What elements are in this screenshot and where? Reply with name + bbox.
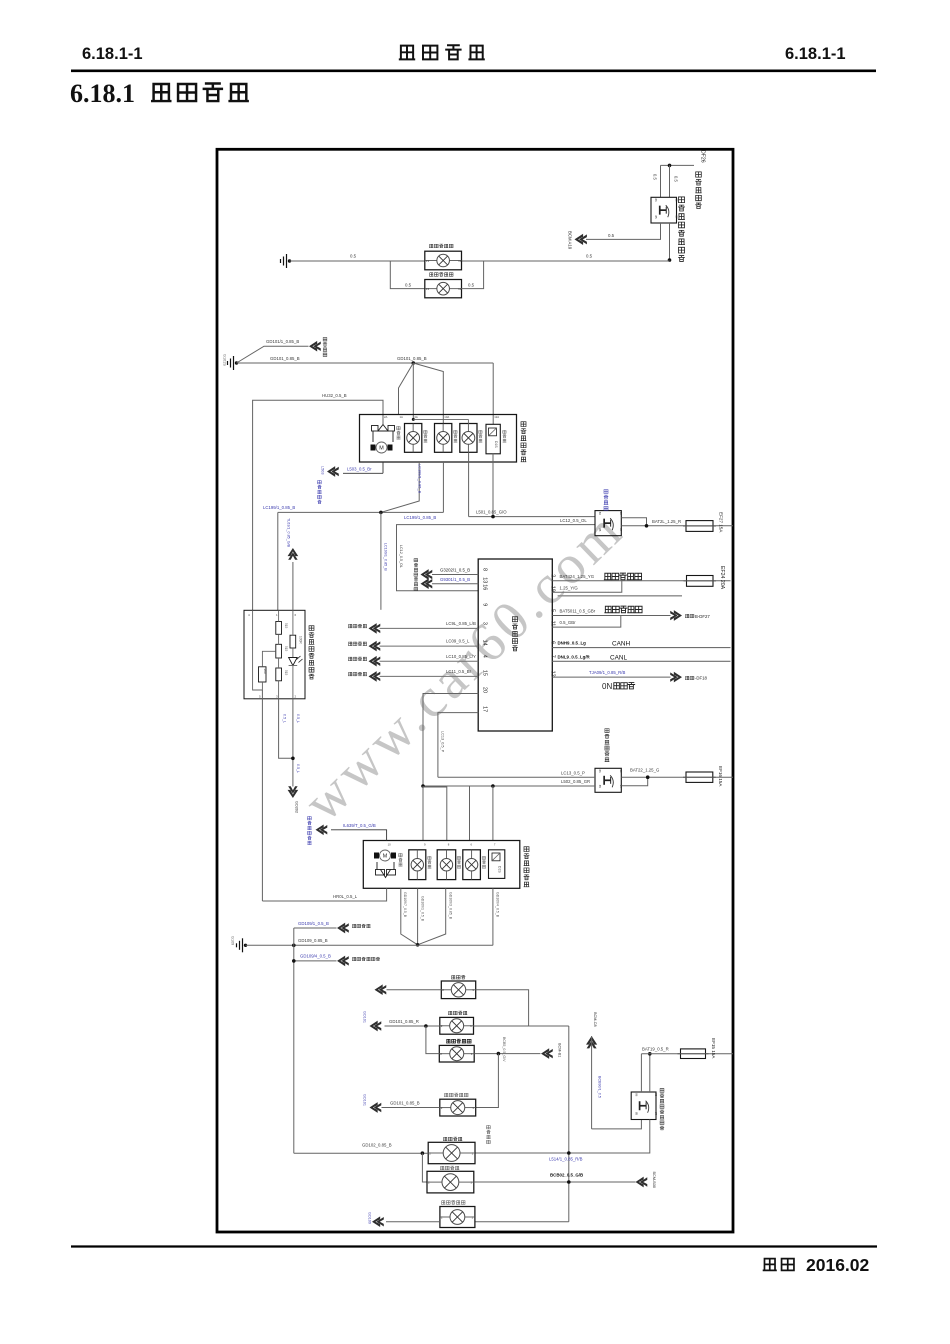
wire LC199 bus to leveling switch [442,462,444,512]
svg-text:L503: L503 [321,466,325,474]
svg-text:11: 11 [550,621,556,627]
svg-text:10: 10 [388,842,392,846]
svg-text:6: 6 [550,641,556,644]
svg-text:9: 9 [482,603,488,606]
connector arrow to BCM A10 [575,234,587,245]
node DRL feed [668,258,672,262]
wire branch x446 [423,787,447,841]
connector arrow [369,623,381,634]
lamp right headlamp L3 [463,850,481,880]
wire small box down out of box [261,690,263,901]
svg-text:LC13_0.5_P: LC13_0.5_P [441,731,445,753]
label harness name vertical CJK [323,338,327,341]
svg-text:GD109/4_0.5_B: GD109/4_0.5_B [496,892,500,918]
svg-text:BCB5_0.5_G/V: BCB5_0.5_G/V [502,1037,506,1062]
svg-text:L502_0.85_GR: L502_0.85_GR [561,779,590,784]
svg-text:LC199/1_0.85_B: LC199/1_0.85_B [384,543,388,571]
wire to front harness connector [237,346,309,363]
label lamp B CJK [448,1011,452,1014]
svg-text:GD101_0.85_B: GD101_0.85_B [270,356,300,361]
wire relay pin 86 drop [660,165,662,197]
lamp DRL right 日间行车灯 [425,280,462,298]
svg-text:G9301/1_0.5_B: G9301/1_0.5_B [440,577,470,582]
wire fan to x398 [399,363,414,415]
wire branch x493 node [491,784,495,788]
wire L503 leveling signal blue [343,472,383,474]
separator gray line [558,595,682,597]
connector arrow front harness [309,341,321,352]
wire fan to x443 [413,363,443,424]
header rule [71,70,876,73]
svg-text:13: 13 [426,259,430,263]
wire lamp F left [422,1153,427,1182]
wire DRL main right [462,260,670,262]
node drop to lamp F [421,1151,425,1155]
relay K4 flasher relay [631,1092,656,1120]
svg-text:4: 4 [482,655,488,658]
wire lamp A right [476,990,529,1026]
svg-text:BAT2L_1.25_R: BAT2L_1.25_R [652,519,681,524]
label lamp A CJK [451,975,455,978]
svg-text:EF27 15A: EF27 15A [719,512,724,533]
fuse EF15 [681,1049,706,1059]
lamp E [428,1142,475,1163]
connector arrow up [288,548,299,560]
svg-text:BAT19_0.5_R: BAT19_0.5_R [642,1047,669,1052]
wire HR0L leveling to right motor [262,888,386,901]
label lamp G CJK gray [441,1201,445,1204]
wire pin20 down [423,694,478,787]
connector arrow up BCM C8 [586,1036,597,1048]
lamp headlamp L3 [460,424,477,453]
svg-text:BAT22_1.25_G: BAT22_1.25_G [630,767,660,772]
svg-text:GD202: GD202 [295,801,299,813]
wire pin17 down [438,713,478,778]
svg-text:GD109: GD109 [368,1212,372,1224]
svg-text:M: M [379,446,384,452]
svg-text:B-DF27: B-DF27 [695,614,710,619]
svg-text:G101S: G101S [223,354,227,366]
wire R2 to small box [262,651,275,667]
svg-text:1A: 1A [400,415,404,419]
connector arrow DF18 [670,672,682,683]
lamp C front turn [439,1045,474,1062]
label source CJK [348,642,352,645]
connector arrow [369,671,381,682]
label DF18 dest [685,676,689,679]
svg-text:515: 515 [284,646,288,652]
node riser join [567,1151,571,1155]
svg-text:IL639/T_0.5_G/B: IL639/T_0.5_G/B [343,823,376,828]
label assembly name vertical CJK [521,422,526,427]
lamp F [427,1171,474,1193]
fuse EF24 [687,576,714,587]
svg-text:0.5_GBr: 0.5_GBr [560,620,577,625]
svg-text:3A: 3A [414,415,418,419]
label relay name vertical blue CJK [604,490,608,494]
connector arrow BCM B30 [636,1177,648,1188]
footer model name (CJK) 逸动 [764,1259,776,1271]
wire LC13 pin17 to relay [438,776,595,778]
svg-text:30: 30 [674,199,678,203]
wire below leveling box pair [279,699,293,759]
svg-text:0.5: 0.5 [674,176,679,182]
svg-text:13: 13 [482,577,488,583]
lamp headlamp L2 [435,424,452,453]
svg-text:86: 86 [598,770,602,774]
svg-text:0N: 0N [602,682,612,691]
svg-text:0.5: 0.5 [350,254,357,259]
svg-text:LC199/1_0.85_B: LC199/1_0.85_B [263,505,295,510]
wire relay out jog [621,518,646,526]
svg-text:86: 86 [654,199,658,203]
label relay name vertical CJK [605,729,609,733]
wire D1S bottom [492,454,494,517]
svg-text:13: 13 [426,287,430,291]
wire lamp C right to BCM [474,1053,540,1055]
svg-text:L514/1_0.85_R/B: L514/1_0.85_R/B [549,1156,583,1161]
wire lamp E left from riser [294,1152,428,1154]
wire lamp A left arrow [387,989,442,991]
node BCB02 [567,1180,571,1184]
svg-text:BCB02_0.5_G/B: BCB02_0.5_G/B [550,1173,583,1178]
label module name vertical CJK [512,617,517,622]
svg-text:LC13_0.5_P: LC13_0.5_P [561,770,585,775]
svg-text:GD101_0.85_B: GD101_0.85_B [390,1100,420,1105]
relay K3 headlamp relay [595,768,621,792]
wire lamp3 bottom to L501 [468,452,470,516]
label source CJK [348,657,352,660]
wire relay out down [475,1120,650,1154]
svg-text:BCM-C8: BCM-C8 [593,1012,597,1027]
label external ground vertical gray [487,1126,491,1129]
svg-text:86: 86 [598,512,602,516]
wire lamp G left [386,1221,440,1223]
wire lamp B right bus [474,1025,569,1027]
svg-text:0.5: 0.5 [468,282,475,287]
fuse EF16 [686,772,713,782]
svg-text:7: 7 [550,655,556,658]
node LC199 junction [379,511,383,515]
lamp right headlamp L1 [409,850,426,880]
lamp headlamp L1 [405,424,422,453]
svg-text:BAT424_1.25_YG: BAT424_1.25_YG [560,574,595,579]
svg-text:TL63/1_0.85_G/B: TL63/1_0.85_G/B [287,518,291,548]
label assembly name vertical CJK [524,847,529,852]
svg-text:GD101_0.85_B: GD101_0.85_B [397,356,427,361]
node BAT2L [645,524,649,528]
wire pin6 CANH [552,647,730,649]
label L3 vertical [479,430,482,433]
svg-text:12: 12 [458,287,462,291]
leveling motor symbol right (mirrored) [380,850,391,861]
wire lamp B left [385,1025,440,1027]
svg-text:30: 30 [619,512,623,516]
wire BAT19 to fuse EF15 [641,1053,733,1055]
wire DRL right return [462,261,484,289]
svg-text:TJA09/1_0.85_R/B: TJA09/1_0.85_R/B [589,670,625,675]
wire turn drop to side lamp [476,1054,499,1108]
label relay name vertical CJK [660,1089,664,1093]
wire pin2 BAT424 to fuse EF24 [552,580,730,582]
label dest CJK [352,957,356,960]
svg-text:6.18.1-1: 6.18.1-1 [82,45,143,63]
svg-text:BCM A10: BCM A10 [568,231,573,250]
label DRL left lamp name [429,244,433,247]
wire pin [380,660,479,662]
wire left riser [293,928,295,1153]
svg-text:6.18.1: 6.18.1 [70,79,135,108]
label lamp F CJK gray [440,1166,444,1169]
wire resistor chain [278,610,280,621]
svg-text:85: 85 [634,1112,638,1116]
svg-text:12: 12 [458,259,462,263]
node turn feed [497,1052,501,1056]
wire HU32 leveling feed [253,400,383,610]
svg-text:EF24 20A: EF24 20A [719,566,725,590]
svg-text:12A: 12A [494,415,499,419]
svg-text:LC12_0.5_OL: LC12_0.5_OL [560,518,587,523]
lamp DRL left 日间行车灯 [425,251,462,270]
resistor R3 [276,668,282,681]
wire HU32 inside box [253,610,263,690]
svg-text:85: 85 [598,785,602,789]
wire bus drops into right headlamp [421,784,425,788]
label vertical [457,856,460,859]
label source CJK [348,624,352,627]
svg-text:2016.02: 2016.02 [806,1255,870,1275]
svg-text:LC10_0.85_L/Y: LC10_0.85_L/Y [446,654,476,659]
svg-text:GD109/1_0.5_B: GD109/1_0.5_B [298,921,329,926]
label CJK 后雾灯电源 [605,606,612,612]
svg-text:DNH9_0.5_Lg: DNH9_0.5_Lg [558,641,587,646]
svg-text:15: 15 [482,670,488,676]
wire pin5 rear fog to DF27 [552,615,670,617]
footer rule [71,1245,877,1247]
wire lamp C left [426,1026,439,1054]
node ground bus [416,943,420,947]
ground G DRL [288,259,291,262]
headlamp assembly box left 左前组合大灯 [360,415,517,463]
svg-text:G109: G109 [231,936,235,945]
svg-text:87: 87 [654,1112,658,1116]
svg-text:19: 19 [550,586,556,592]
label L2 vertical [454,430,457,433]
label DRL right lamp name [429,273,433,276]
wire relay 87 down to DRL lamp feed [669,223,671,260]
lamp B [440,1017,474,1034]
label lamp E CJK [443,1137,447,1140]
wire branch x469 [469,786,471,841]
wire pin [380,645,479,647]
label D1S vertical [503,430,506,433]
svg-text:LC12_0.5_OL: LC12_0.5_OL [399,545,403,568]
wire drop to lamp1 via fan [412,363,414,419]
HID bulb D1S right [489,850,505,879]
fuse EF27 [686,521,713,532]
resistor R4 [290,635,296,648]
svg-text:BCB90/1_0.5: BCB90/1_0.5 [598,1076,602,1098]
svg-text:GD109_0.85_B: GD109_0.85_B [298,938,328,943]
wire GD101 main [237,362,494,364]
svg-text:515: 515 [284,670,288,676]
label motor vertical [399,854,402,857]
svg-text:0.5: 0.5 [405,282,412,287]
wire ground bus [246,944,493,946]
wire L502 relay to right headlamp bus [423,785,595,787]
svg-text:85: 85 [598,528,602,532]
ground G101S [235,361,238,364]
wire GD101 to D1S drop [492,363,494,424]
connector arrow IL639 blue [316,824,328,835]
svg-text:360: 360 [263,669,267,674]
svg-text:2: 2 [550,574,556,577]
wire lamp G feed [475,1221,569,1223]
module box 大灯控制器 [478,559,552,731]
wire pin [380,675,479,677]
label switch name vertical CJK [309,626,314,631]
svg-text:10A: 10A [444,415,449,419]
svg-text:0.5_L: 0.5_L [296,764,300,773]
svg-text:30: 30 [654,1093,658,1097]
label dest CJK [352,924,356,927]
section title CJK 照明系统 [152,84,170,101]
wire pin12 to DF18 [552,676,670,678]
svg-text:20: 20 [482,687,488,693]
wire lamp1 bottom to junction [381,462,419,512]
svg-text:0.5: 0.5 [653,174,658,180]
wire right headlamp grounds [401,888,418,945]
svg-text:LC199/1_0.85_B: LC199/1_0.85_B [404,515,436,520]
svg-text:BAT5011_0.5_GBr: BAT5011_0.5_GBr [560,609,596,614]
wire relay 85 to BCM A10 [586,223,661,239]
svg-text:M: M [383,854,388,860]
leveling motor symbol [372,425,395,443]
svg-text:GD109/4_0.5_B: GD109/4_0.5_B [300,954,331,959]
connector arrow down GD202 [288,786,299,798]
wire pin19 jog up [552,581,622,592]
svg-text:14: 14 [482,640,488,646]
svg-text:100R: 100R [299,636,303,644]
wire branch to connector 1 [294,927,337,929]
node feed junction [668,164,672,168]
node left riser [292,944,296,948]
svg-text:BCM-B30: BCM-B30 [652,1172,656,1188]
svg-text:HU32_0.5_B: HU32_0.5_B [322,393,347,398]
wire right riser long [568,1026,570,1222]
wire relay pin 30 drop [669,165,671,197]
svg-text:G3202/1_0.5_B: G3202/1_0.5_B [440,568,470,573]
connector arrow CP39 blue [327,466,339,477]
svg-text:L501_0.85_G/O: L501_0.85_G/O [476,509,507,514]
svg-text:17: 17 [482,706,488,712]
wire D1S ground [492,888,494,945]
svg-text:0.5_L: 0.5_L [283,714,287,723]
lamp D side turn [440,1099,476,1116]
wire pin13 from harness [432,583,478,585]
wire pin11 jog [552,616,621,628]
node BAT22 [646,775,650,779]
svg-text:0.5: 0.5 [586,254,593,259]
wire pin8 from engine harness [432,574,478,576]
wire junction down to pin9 [380,512,382,609]
wire branch to connector 2 [294,960,337,962]
svg-text:EF15 15A: EF15 15A [711,1038,716,1059]
svg-text:5: 5 [550,609,556,612]
headlamp assembly box right 右前组合大灯 [363,841,520,889]
label lamp C CJK bold [446,1039,450,1043]
svg-text:HR0L_0.5_L: HR0L_0.5_L [333,894,358,899]
svg-text:GD101_0.85_R: GD101_0.85_R [389,1019,419,1024]
svg-text:D1S: D1S [494,441,498,448]
svg-text:BCM-B1: BCM-B1 [558,1043,562,1057]
node L501 junction [491,515,495,519]
svg-text:515: 515 [284,623,288,629]
svg-text:30: 30 [619,770,623,774]
HID bulb D1S [486,424,500,454]
diagram border frame [217,149,733,1232]
svg-text:LC199/1_0.85_B: LC199/1_0.85_B [418,464,423,494]
label DF27 dest [685,614,689,617]
label vertical [482,856,485,859]
wire IL639 to motor [331,830,387,841]
label L1 vertical [424,430,427,433]
resistor R2 [276,644,282,658]
svg-text:CANL: CANL [610,654,627,661]
svg-text:D1S: D1S [498,866,502,873]
svg-text:87: 87 [674,216,678,220]
svg-text:DNL9_0.5_Lg/R: DNL9_0.5_Lg/R [558,654,591,659]
node GD101 junction [412,361,416,365]
svg-text:3: 3 [482,622,488,625]
svg-text:1.25_Y/G: 1.25_Y/G [560,585,579,590]
lamp G [440,1207,475,1228]
svg-text:LC09_0.5_L: LC09_0.5_L [446,639,470,644]
svg-text:GD109/7_0.5_B: GD109/7_0.5_B [403,892,407,918]
svg-text:2A: 2A [384,415,388,419]
connector arrow pin13 [421,578,433,589]
wire pin7 CANL [552,660,730,662]
svg-text:LC9L_0.85_L/B: LC9L_0.85_L/B [446,621,476,626]
svg-text:6.18.1-1: 6.18.1-1 [785,45,846,63]
wire inner top bus [412,418,415,421]
wire pin [380,627,479,629]
label source CJK [348,672,352,675]
connector arrow pin8 [421,569,433,580]
wire sensor up arrow [292,562,294,610]
wire R4 top [292,610,294,635]
wire lamp F right to BCM [474,1181,636,1183]
connector arrow [369,656,381,667]
wire corner down to leveling box [277,512,279,610]
connector arrow DF27 [670,610,682,621]
wire relay top feeds [640,1054,642,1092]
svg-text:GD109/1_0.5_B: GD109/1_0.5_B [421,896,425,922]
svg-text:87: 87 [619,528,623,532]
ground G109 [244,944,247,947]
photodiode symbol [292,648,294,658]
leveling switch box 灯光高度调节开关 [244,610,305,699]
node lamp B [424,1024,428,1028]
connector small box inside [259,667,267,682]
svg-text:GD109/3_0.85_B: GD109/3_0.85_B [448,892,452,920]
svg-text:EF16 15A: EF16 15A [718,766,723,787]
lamp A front fog [441,981,475,999]
svg-text:GD102_0.85_B: GD102_0.85_B [362,1142,392,1147]
wire LC12 relay coil to pin16 [397,525,596,591]
node BAT19 [648,1052,652,1056]
connector arrow [337,956,349,967]
